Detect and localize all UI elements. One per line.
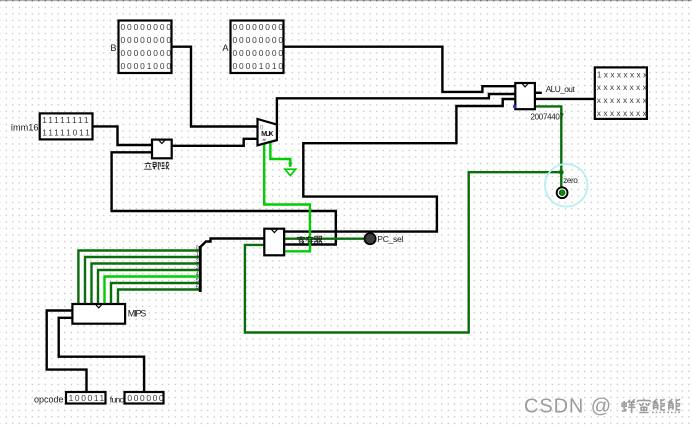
svg-text:00000000: 00000000: [121, 35, 173, 45]
watermark CJK pseudo glyphs: [622, 399, 681, 413]
svg-text:PC_sel: PC_sel: [377, 234, 403, 244]
wire imm16 to extender input1: [92, 126, 152, 145]
display ALU result: [595, 67, 647, 119]
svg-text:1xxxxxxx: 1xxxxxxx: [597, 69, 650, 79]
mi: [638, 399, 651, 413]
wire zero loop to register input2 (dark green): [245, 172, 561, 332]
probe A: [231, 21, 284, 74]
ground (bright green): [288, 163, 292, 168]
xiong: [653, 399, 665, 413]
svg-text:xxxxxxxx: xxxxxxxx: [597, 82, 649, 92]
svg-text:2: 2: [196, 258, 199, 264]
svg-text:00000000: 00000000: [233, 48, 285, 58]
wire extender output to MUX input1: [172, 139, 258, 146]
mux select gray dot: [263, 139, 266, 141]
svg-text:xxxxxxxx: xxxxxxxx: [597, 95, 649, 105]
svg-text:opcode: opcode: [34, 394, 64, 404]
alu U1: [515, 83, 535, 109]
wire A probe to ALU input1: [284, 47, 516, 92]
label li-ji-shu (extender) pseudo CJK: [144, 162, 169, 170]
svg-text:00000000: 00000000: [121, 22, 173, 32]
wire MIPS ctrl bit3: [98, 270, 200, 304]
pin zero halo: [545, 164, 588, 207]
svg-text:5: 5: [196, 278, 199, 284]
pin zero: [557, 187, 568, 198]
svg-text:B: B: [110, 43, 116, 53]
wire MIPS ctrl bit0: [78, 251, 199, 305]
unconnected pin (blue) on alu: [513, 105, 516, 108]
wire MIPS ctrl bit2: [92, 264, 200, 305]
wire MIPS ctrl bit4 (value 1, bright): [105, 277, 200, 305]
wire splitter root to register input1: [200, 239, 264, 248]
wire MIPS ctrl bit5: [111, 283, 200, 304]
svg-text:00000000: 00000000: [233, 22, 285, 32]
display opcode: [66, 392, 106, 404]
svg-text:zero: zero: [563, 176, 578, 185]
wire register out1 zigzag to ALU input3: [285, 99, 516, 232]
svg-text:6: 6: [196, 284, 199, 290]
wire MUX select to ground (bright green): [270, 141, 290, 167]
splitter bit numbers: [196, 245, 199, 290]
svg-text:00000000: 00000000: [121, 48, 173, 58]
wire ALU_out pin stub: [535, 92, 542, 94]
svg-text:xxxxxxxx: xxxxxxxx: [597, 108, 649, 118]
wire register out2 to extender input2: [112, 152, 336, 244]
wire junction to zero pin: [560, 172, 562, 187]
svg-text:1: 1: [196, 252, 199, 258]
svg-text:imm16: imm16: [11, 122, 39, 132]
svg-text:MIPS: MIPS: [128, 308, 147, 318]
svg-text:00001010: 00001010: [233, 61, 285, 71]
wire ALU output to display: [535, 98, 595, 100]
probe imm16: [40, 113, 93, 139]
label ji-cun-qi (register) pseudo CJK: [297, 236, 322, 244]
feng: [622, 399, 636, 413]
svg-text:100011: 100011: [69, 393, 106, 403]
wire MIPS to opcode display: [47, 311, 87, 393]
svg-text:A: A: [222, 43, 229, 53]
svg-text:11111011: 11111011: [42, 128, 91, 138]
svg-text:0: 0: [196, 245, 199, 251]
svg-text:00000000: 00000000: [233, 35, 285, 45]
wire MIPS to func display: [59, 318, 144, 392]
svg-text:000000: 000000: [127, 393, 165, 403]
display func: [125, 392, 164, 404]
svg-text:4: 4: [196, 271, 199, 277]
wire MUX enable to register right input (bright green): [264, 143, 310, 251]
mux MUX1: [258, 119, 277, 145]
wire ALU zero output (dark green) to junction: [535, 106, 561, 172]
splitter spine: [199, 246, 202, 292]
svg-text:3: 3: [196, 265, 199, 271]
wire MIPS ctrl bit6: [118, 290, 200, 305]
wire MIPS ctrl bit1: [85, 257, 200, 304]
subcircuit extender (li ji shu): [152, 140, 172, 159]
node junction dot on zero net: [559, 170, 564, 175]
wire register out3 to PC_sel LED (dark green): [285, 237, 365, 239]
svg-text:0: 0: [260, 124, 264, 131]
wire MUX output to ALU input2: [277, 94, 515, 134]
svg-text:20074407: 20074407: [531, 113, 565, 122]
svg-text:CSDN @: CSDN @: [524, 395, 612, 417]
subcircuit MIPS controller: [72, 304, 125, 324]
svg-text:00001000: 00001000: [121, 61, 173, 71]
wire B probe to MUX input0: [172, 47, 258, 127]
xiong: [668, 399, 680, 413]
LED PC_sel: [365, 233, 376, 244]
probe B: [119, 21, 172, 74]
svg-text:func: func: [110, 394, 125, 404]
svg-text:0: 0: [561, 191, 564, 197]
svg-text:11111111: 11111111: [42, 115, 90, 125]
svg-text:ALU_out: ALU_out: [546, 84, 576, 94]
subcircuit register file (ji cun qi): [264, 229, 284, 256]
